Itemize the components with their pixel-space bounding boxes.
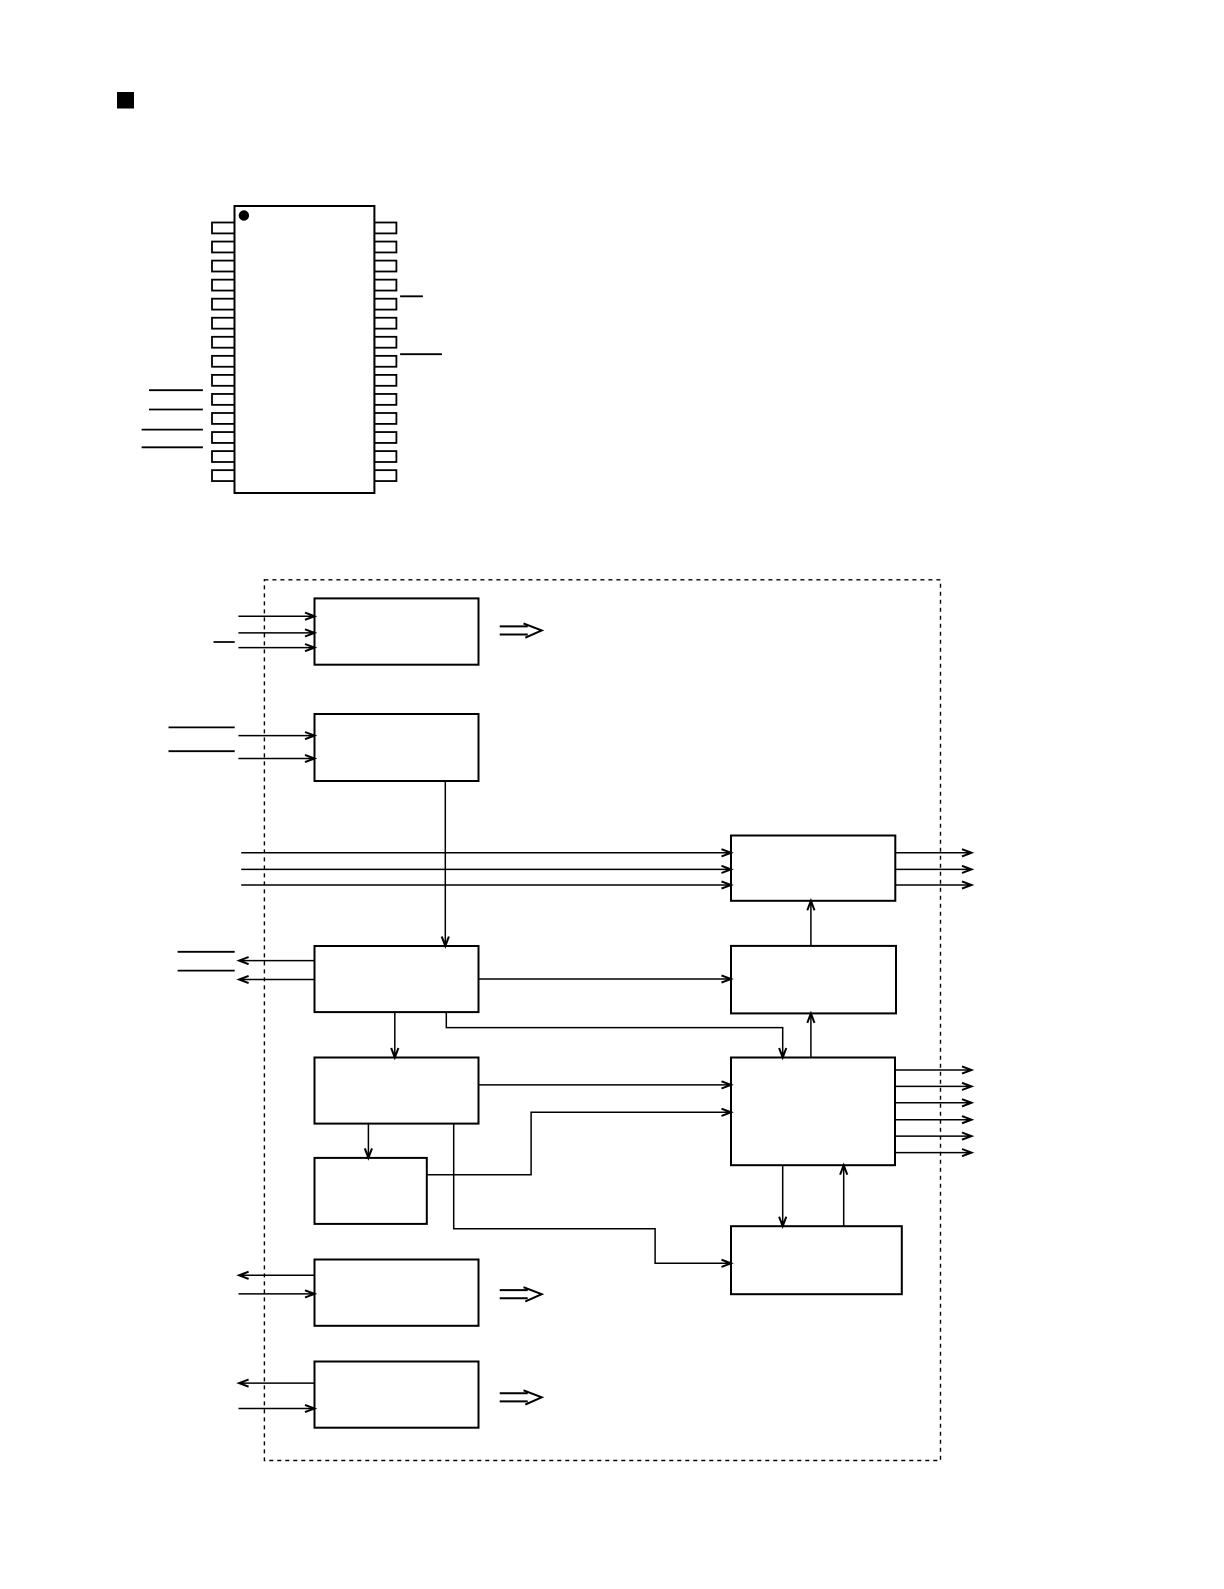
- output arrow 3 from signal processor: [895, 1099, 972, 1106]
- right pin 22: [374, 337, 396, 348]
- wire: control logic to timing generator: [479, 975, 732, 982]
- output arrow 1 from output buffer: [895, 849, 971, 856]
- right pin 27: [374, 242, 396, 253]
- input signal arrow 2 to input interface 2: [238, 755, 314, 762]
- bus symbol of serial interface 2: [500, 1390, 542, 1404]
- bus line 3 to output buffer: [241, 881, 731, 888]
- right pin 18: [374, 413, 396, 424]
- wire: oscillator to signal processor: [840, 1165, 847, 1226]
- input signal arrow 1 to input interface 2: [238, 732, 314, 739]
- pin 1 indicator dot: [239, 210, 249, 220]
- block: processor core: [315, 1058, 479, 1124]
- right pin 15: [374, 470, 396, 481]
- bus line 1 to output buffer: [241, 849, 731, 856]
- output arrow 3 from output buffer: [895, 881, 971, 888]
- wire: signal processor to oscillator: [779, 1165, 786, 1226]
- overbar for right pin label (upper): [400, 295, 423, 297]
- wire: processor core to oscillator (stepped): [454, 1124, 731, 1267]
- overbar for input label (lower): [169, 750, 235, 752]
- input signal arrow 1 to input interface 1: [238, 613, 314, 620]
- bus symbol of serial interface 1: [500, 1287, 542, 1301]
- left pin 12: [212, 432, 235, 443]
- left pin 14: [212, 470, 235, 481]
- block: timing generator: [731, 946, 896, 1014]
- left pin 6: [212, 318, 235, 329]
- overbar for left pin label (pin 12): [142, 429, 203, 431]
- output arrow 6 from signal processor: [895, 1149, 972, 1156]
- block: input interface 1: [315, 598, 479, 664]
- section heading bullet square: [117, 92, 134, 109]
- output arrow 1 from control logic: [239, 957, 314, 964]
- block: output buffer: [731, 836, 895, 901]
- left pin 3: [212, 261, 235, 272]
- output arrow 2 from output buffer: [895, 866, 971, 873]
- block: oscillator: [731, 1226, 902, 1294]
- left pin 8: [212, 356, 235, 367]
- right pin 25: [374, 280, 396, 291]
- overbar for left pin label (pin 11): [149, 409, 203, 411]
- right pin 17: [374, 432, 396, 443]
- left pin 5: [212, 299, 235, 310]
- wire: timing generator to output buffer: [807, 901, 814, 946]
- right pin 26: [374, 261, 396, 272]
- bus line 2 to output buffer: [241, 866, 731, 873]
- wire: control logic to processor core: [391, 1012, 398, 1057]
- input arrow to serial interface 2: [239, 1405, 315, 1412]
- right pin 23: [374, 318, 396, 329]
- block: serial interface 2: [315, 1362, 479, 1428]
- IC package body U1: [235, 206, 375, 493]
- overbar for input label (upper): [169, 726, 235, 728]
- right pin 16: [374, 451, 396, 462]
- wire: input interface 2 to control logic: [442, 781, 449, 946]
- output arrow 1 from signal processor: [895, 1066, 972, 1073]
- block: signal processor: [731, 1058, 895, 1166]
- bus output symbol of input interface 1: [500, 623, 542, 637]
- left pin 10: [212, 394, 235, 405]
- right pin 28: [374, 223, 396, 234]
- output arrow 2 from signal processor: [895, 1083, 972, 1090]
- input signal arrow 3 to input interface 1: [238, 644, 314, 651]
- output arrow from serial interface 2: [239, 1380, 314, 1387]
- right pin 20: [374, 375, 396, 386]
- overbar for input label: [214, 641, 235, 643]
- left pin 4: [212, 280, 235, 291]
- right pin 21: [374, 356, 396, 367]
- wire: control logic to signal processor (stepped): [446, 1012, 786, 1057]
- overbar for left pin label (pin 13): [142, 446, 203, 448]
- output arrow 5 from signal processor: [895, 1133, 972, 1140]
- block: control logic: [315, 946, 479, 1012]
- input signal arrow 2 to input interface 1: [238, 629, 314, 636]
- output arrow from serial interface 1: [239, 1272, 314, 1279]
- block: memory: [315, 1158, 427, 1224]
- overbar for control output label (lower): [178, 970, 235, 972]
- left pin 9: [212, 375, 235, 386]
- left pin 11: [212, 413, 235, 424]
- left pin 13: [212, 451, 235, 462]
- right pin 19: [374, 394, 396, 405]
- wire: processor core to signal processor: [479, 1081, 732, 1088]
- left pin 2: [212, 242, 235, 253]
- wire: processor core to memory: [365, 1124, 372, 1158]
- wire: signal processor to timing generator: [807, 1013, 814, 1057]
- right pin 24: [374, 299, 396, 310]
- block: serial interface 1: [315, 1260, 479, 1326]
- output arrow 4 from signal processor: [895, 1116, 972, 1123]
- input arrow to serial interface 1: [239, 1290, 315, 1297]
- output arrow 2 from control logic: [239, 976, 314, 983]
- chip boundary (dashed): [264, 580, 940, 1461]
- wire: memory to signal processor (stepped): [427, 1109, 731, 1175]
- left pin 1: [212, 223, 235, 234]
- overbar for left pin label (pin 10): [149, 389, 203, 391]
- overbar for right pin label (lower): [400, 353, 442, 355]
- overbar for control output label (upper): [178, 951, 235, 953]
- block: input interface 2: [315, 714, 479, 781]
- left pin 7: [212, 337, 235, 348]
